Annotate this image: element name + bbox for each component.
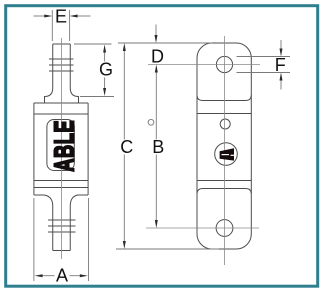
svg-text:C: C: [120, 137, 133, 157]
svg-text:D: D: [151, 47, 164, 67]
svg-text:E: E: [55, 7, 67, 27]
svg-text:F: F: [275, 55, 286, 75]
svg-text:ABLE: ABLE: [50, 120, 81, 172]
svg-text:G: G: [99, 60, 113, 80]
svg-text:B: B: [152, 137, 164, 157]
svg-text:A: A: [56, 266, 68, 286]
